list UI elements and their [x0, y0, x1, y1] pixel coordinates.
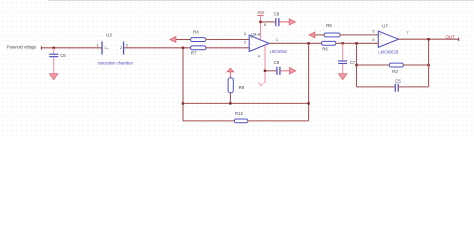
wire: arrow to R5 — [315, 34, 324, 36]
capacitor C9 — [274, 60, 281, 75]
wire: bottom feedback row (left part) — [183, 120, 234, 122]
node: feedback tap on lower row — [182, 47, 184, 49]
off-page arrow (left, R5 row) — [309, 32, 315, 38]
capacitor C8 — [274, 11, 280, 26]
svg-text:+: + — [251, 36, 253, 40]
wire: +5V to U8A pin 8 — [260, 15, 262, 40]
svg-text:LMC6062: LMC6062 — [270, 49, 288, 54]
power +5V — [257, 10, 265, 15]
node: C9 tap — [264, 70, 266, 72]
node: middle row right junction — [307, 102, 309, 104]
svg-text:-: - — [117, 47, 118, 51]
wire: feedback loop right vertical — [428, 39, 430, 87]
svg-text:U7: U7 — [382, 23, 388, 28]
wire: U8A pin 4 down — [264, 45, 266, 83]
svg-text:R5: R5 — [326, 23, 332, 28]
svg-text:C6: C6 — [60, 53, 66, 58]
wire: arrow to R4 — [176, 39, 191, 41]
wire: R7 to U8A pin 2 — [206, 47, 250, 49]
wire: middle feedback row — [183, 102, 309, 104]
svg-text:+: + — [107, 47, 109, 51]
wire: U7 output to OUT — [399, 38, 459, 40]
node: R9 bottom junction — [229, 102, 231, 104]
wire: R9 to middle row — [229, 93, 231, 104]
node: feedback loop top tap — [355, 42, 357, 44]
svg-text:R7: R7 — [191, 51, 197, 56]
ground (below C7) — [338, 64, 347, 80]
op-amp U8-A LMC6062 — [244, 22, 288, 59]
wire: C5 row left segment — [357, 86, 395, 88]
svg-text:C7: C7 — [350, 60, 356, 65]
resistor R5 — [324, 23, 340, 37]
ionization chamber U3 — [97, 32, 134, 65]
wire: C8 branch — [261, 21, 276, 23]
node: C8 tap — [259, 21, 261, 23]
node: output feedback tap — [307, 42, 309, 44]
wire: R3 row left segment — [357, 64, 390, 66]
svg-text:C5: C5 — [395, 79, 401, 84]
wire: C8 to arrow — [280, 21, 290, 23]
off-page arrow (right of C9) — [290, 68, 296, 74]
wire: U3 pin 2 to R7 — [124, 47, 190, 49]
svg-text:R4: R4 — [193, 30, 199, 35]
svg-text:R12: R12 — [235, 111, 243, 116]
svg-text:R9: R9 — [239, 85, 245, 90]
svg-text:R3: R3 — [392, 69, 398, 74]
net OUT — [446, 35, 460, 41]
resistor R6 — [322, 41, 336, 51]
svg-text:R6: R6 — [322, 47, 328, 52]
node: output junction — [427, 38, 429, 40]
wire: R5 to U7 pin 5 — [340, 34, 378, 36]
capacitor C6 — [49, 48, 66, 58]
wire: input row to U3 pin 1 — [41, 47, 102, 49]
node: middle row left junction — [182, 102, 184, 104]
wire: R6 to U7 pin 6 — [336, 42, 379, 44]
off-page arrow (right of C8) — [289, 19, 295, 25]
op-amp U7 LMC6062B — [372, 23, 409, 54]
svg-text:+5V: +5V — [257, 10, 265, 15]
wire: C9 to arrow — [281, 70, 290, 72]
node: R3 row right junction — [427, 64, 429, 66]
svg-text:+: + — [380, 33, 382, 37]
node: C6 tap junction — [53, 47, 55, 49]
capacitor C5 — [395, 79, 402, 92]
off-page arrow (left, R4 row) — [170, 37, 176, 43]
power arrow (above R9) — [227, 68, 234, 78]
resistor R7 — [191, 46, 206, 56]
ground (below C6) — [49, 57, 58, 79]
wire: right feedback vertical — [308, 43, 310, 121]
wire: left feedback vertical — [182, 48, 184, 121]
resistor R9 — [228, 78, 245, 93]
wire: R4 to U8A pin 3 — [206, 39, 250, 41]
wire: C5 row right segment — [399, 86, 429, 88]
svg-text:C8: C8 — [274, 11, 280, 16]
resistor R3 — [389, 63, 403, 74]
node: C7 tap — [342, 42, 344, 44]
svg-text:OUT: OUT — [446, 35, 456, 40]
net Paranoid voltage — [7, 45, 42, 50]
wire: R3 row right segment — [403, 64, 428, 66]
svg-text:U3: U3 — [106, 32, 112, 37]
resistor R12 — [234, 111, 247, 123]
wire: feedback loop left vertical — [356, 43, 358, 87]
svg-text:C9: C9 — [274, 60, 280, 65]
resistor R4 — [191, 30, 206, 42]
wire: bottom feedback row (right part) — [248, 120, 309, 122]
svg-text:Ionization chamber: Ionization chamber — [98, 60, 134, 65]
svg-text:LMC6062B: LMC6062B — [378, 50, 398, 55]
svg-text:Paranoid voltage: Paranoid voltage — [7, 45, 37, 50]
power -V symbol (below U8A) — [258, 82, 263, 85]
wire: C9 branch — [265, 70, 276, 72]
svg-text:2: 2 — [120, 46, 122, 50]
node: R3 row left junction — [355, 64, 357, 66]
wire: U8A output to R6 — [269, 42, 322, 44]
capacitor C7 — [338, 43, 356, 65]
